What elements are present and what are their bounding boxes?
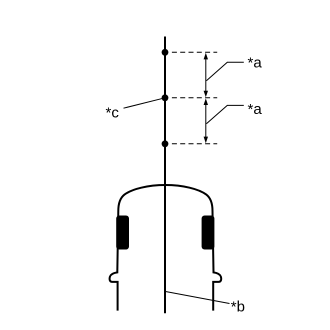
leader line to label *b: [166, 292, 230, 304]
dashed extension line 3: [172, 143, 217, 145]
leader line to label *a lower: [206, 105, 243, 123]
node dot 1: [162, 49, 169, 56]
left door mirror: [116, 216, 129, 250]
node dot 2: [162, 94, 169, 101]
svg-text:*c: *c: [106, 104, 120, 121]
leader line to label *c: [124, 98, 166, 108]
dashed extension line 2: [172, 97, 217, 99]
dashed extension line 1: [172, 51, 217, 53]
dimension arrow *a lower (double-headed): [204, 98, 208, 143]
leader line to label *a upper: [206, 62, 243, 81]
vehicle body outline (front view): [110, 185, 222, 311]
svg-text:*a: *a: [248, 54, 263, 71]
node dot 3: [162, 140, 169, 147]
centerline (vehicle center axis): [164, 37, 166, 314]
svg-text:*b: *b: [231, 298, 245, 315]
dimension arrow *a upper (double-headed): [204, 53, 208, 98]
svg-text:*a: *a: [248, 101, 263, 118]
right door mirror: [202, 216, 215, 250]
